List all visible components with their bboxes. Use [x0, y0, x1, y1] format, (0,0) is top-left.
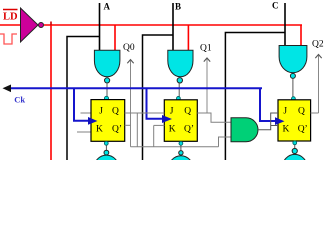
- wire input B: [172, 3, 174, 51]
- wire FF2 clear pin to lower gate: [180, 141, 182, 150]
- wire FF3.Q to probe Q2: [311, 112, 319, 114]
- svg-text:A: A: [104, 2, 111, 12]
- wire G2 output to FF2 preset: [178, 83, 180, 100]
- wire FF1.K stub: [77, 131, 91, 133]
- svg-text:Q1: Q1: [200, 43, 212, 53]
- wire FF1.J stub: [81, 112, 92, 114]
- wire B branch to lower gate: [143, 35, 174, 160]
- wire LD' into gate G1: [114, 25, 116, 51]
- node FF1 clear pin: [104, 141, 108, 145]
- svg-text:C: C: [272, 1, 279, 11]
- wire LD' into gate G2: [187, 25, 189, 51]
- svg-text:Ck: Ck: [14, 94, 25, 104]
- svg-text:Q’: Q’: [298, 125, 308, 135]
- node FF2 clear pin: [179, 142, 183, 146]
- probe arrow Q0: [127, 60, 133, 147]
- svg-text:Q: Q: [298, 106, 305, 116]
- svg-text:K: K: [96, 125, 103, 135]
- wire LD input: [0, 24, 21, 26]
- nand gate G5 body (clipped): [168, 156, 193, 176]
- node FF2 preset pin: [177, 97, 181, 101]
- svg-text:Q0: Q0: [123, 43, 135, 53]
- flip-flop U2 (bit 0): [91, 100, 125, 142]
- nand gate G3 (load gate for C): [279, 46, 307, 79]
- svg-text:Q’: Q’: [184, 125, 194, 135]
- wire G3 output to FF3 preset: [292, 78, 294, 100]
- svg-text:Q2: Q2: [312, 39, 324, 49]
- wire input C: [284, 3, 286, 47]
- svg-text:Q: Q: [112, 106, 119, 116]
- nand gate G2 (load gate for B): [168, 50, 193, 83]
- wire input A: [99, 3, 101, 51]
- clock arrow FF3: [275, 117, 285, 125]
- wire FF1.Q' stub: [125, 124, 131, 126]
- probe arrow Q1: [204, 58, 210, 113]
- pulse stimulus icon: [0, 34, 17, 44]
- wire LD' bus: [44, 24, 302, 26]
- node FF1 preset pin: [104, 96, 108, 100]
- wire FF1.Q branch down: [136, 113, 138, 147]
- wire clock branch to FF3: [260, 88, 276, 121]
- svg-text:Q’: Q’: [112, 125, 122, 135]
- node FF3 clear pin: [293, 141, 297, 145]
- wire clock branch to FF2: [147, 88, 164, 118]
- svg-text:J: J: [99, 106, 103, 116]
- wire FF3 clear pin to lower gate: [294, 141, 296, 148]
- node LD' junction: [50, 22, 52, 26]
- svg-text:B: B: [175, 2, 181, 12]
- clock source arrowhead: [3, 85, 12, 93]
- wire FF1 clear pin to lower gate: [105, 141, 107, 150]
- wire A branch to lower gate: [67, 37, 100, 161]
- and gate U5 (Q0·Q1): [231, 118, 258, 142]
- nand gate G4 bubble: [104, 150, 109, 155]
- wire AND lower input: [219, 137, 232, 147]
- node FF3 preset pin: [292, 97, 296, 101]
- wire bottom run: [131, 146, 219, 148]
- nand gate G4 body (clipped): [94, 155, 119, 176]
- clock arrow FF2: [162, 115, 172, 123]
- flip-flop U3 (bit 1): [164, 100, 197, 142]
- wire G1 output to FF1 preset: [106, 83, 108, 100]
- probe arrow Q2: [315, 55, 321, 114]
- nand gate G6 bubble: [292, 148, 297, 153]
- wire FF2.K feed: [154, 124, 165, 126]
- clock arrow FF1: [88, 117, 98, 125]
- wire clock branch to FF1: [74, 88, 89, 120]
- wire AND output to FF3 J/K: [258, 113, 278, 130]
- wire Ck clock bus: [8, 87, 262, 89]
- label LD (active-low load input): [3, 10, 18, 23]
- wire LD' vertical drop: [50, 25, 52, 160]
- svg-text:J: J: [170, 106, 174, 116]
- svg-text:LD: LD: [3, 12, 18, 23]
- wire C branch to lower gate: [225, 33, 285, 161]
- nand gate G6 body (clipped): [282, 154, 307, 176]
- nand gate G1 (load gate for A): [94, 50, 120, 83]
- svg-text:K: K: [169, 125, 176, 135]
- svg-text:K: K: [283, 125, 290, 135]
- svg-text:J: J: [283, 106, 287, 116]
- wire LD' into gate G3: [300, 25, 302, 47]
- wire FF1.Q to FF2.J: [125, 112, 165, 114]
- inverter U1: [21, 8, 44, 42]
- nand gate G5 bubble: [179, 151, 183, 155]
- svg-text:Q: Q: [184, 106, 191, 116]
- flip-flop U4 (bit 2): [278, 100, 311, 141]
- wire FF2.Q to AND upper input: [197, 113, 231, 122]
